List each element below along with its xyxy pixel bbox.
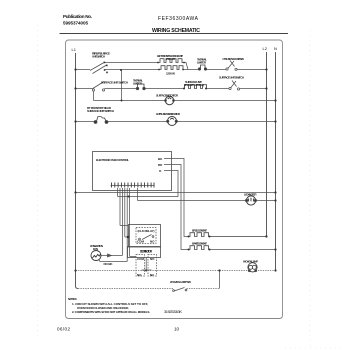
svg-text:NOTES:: NOTES: — [68, 297, 77, 301]
svg-text:COM: COM — [137, 240, 145, 244]
svg-text:HOT SURFACE INDICATOR: HOT SURFACE INDICATOR — [156, 112, 181, 116]
svg-text:5995374005: 5995374005 — [63, 21, 88, 26]
svg-text:O: O — [159, 169, 162, 173]
svg-text:NO BK: NO BK — [104, 262, 114, 266]
svg-text:NO: NO — [150, 240, 155, 244]
svg-text:UNIT SWITCH: UNIT SWITCH — [92, 55, 105, 59]
svg-text:10: 10 — [174, 327, 180, 332]
svg-text:L2: L2 — [263, 46, 268, 51]
svg-text:LOCK MOTOR: LOCK MOTOR — [244, 193, 257, 197]
svg-text:319Z533/3K: 319Z533/3K — [164, 309, 182, 314]
svg-text:SURFACE UNIT SWITCH: SURFACE UNIT SWITCH — [87, 109, 114, 113]
svg-text:WIRING SCHEMATIC: WIRING SCHEMATIC — [152, 28, 200, 34]
svg-text:COM: COM — [137, 257, 145, 261]
svg-text:2100 W: 2100 W — [166, 57, 175, 61]
svg-text:ELECTRONIC OVEN CONTROL: ELECTRONIC OVEN CONTROL — [96, 158, 129, 162]
svg-text:SURFACE UNIT SWITCH: SURFACE UNIT SWITCH — [101, 81, 128, 85]
svg-text:LT SURFACE UNIT SW: LT SURFACE UNIT SW — [223, 57, 245, 61]
svg-text:FEF36300AWA: FEF36300AWA — [158, 16, 199, 22]
svg-text:SURFACE INDICATOR: SURFACE INDICATOR — [156, 94, 179, 98]
svg-text:BK: BK — [158, 157, 163, 161]
svg-text:NO: NO — [150, 257, 155, 261]
svg-text:DOOR MOTOR: DOOR MOTOR — [140, 250, 153, 254]
svg-text:FAN: FAN — [93, 247, 98, 251]
svg-text:W OVEN LAMP: W OVEN LAMP — [243, 260, 258, 264]
svg-text:(2100W 1250W): (2100W 1250W) — [184, 83, 204, 87]
svg-text:06/02: 06/02 — [57, 327, 70, 332]
svg-text:1250 W: 1250 W — [166, 72, 175, 76]
svg-text:RD: RD — [158, 163, 163, 167]
svg-text:LIMITER: LIMITER — [197, 61, 207, 65]
svg-text:Publication No.: Publication No. — [63, 14, 92, 19]
svg-text:N: N — [274, 46, 277, 51]
svg-text:NO: NO — [137, 273, 142, 277]
svg-text:L1: L1 — [72, 47, 77, 52]
svg-text:BAKE ELEMENT: BAKE ELEMENT — [192, 242, 207, 246]
svg-text:SURFACE UNIT SWITCH: SURFACE UNIT SWITCH — [219, 76, 244, 80]
svg-text:W OVEN LAMP SW: W OVEN LAMP SW — [170, 280, 191, 284]
svg-text:NC: NC — [150, 273, 155, 277]
svg-text:2. COMPONENTS WITH W DO NOT: 2. COMPONENTS WITH W DO NOT APPEAR ON AL… — [72, 310, 150, 314]
svg-text:BROIL ELEMENT: BROIL ELEMENT — [192, 229, 207, 233]
svg-text:LIMITER: LIMITER — [133, 82, 143, 86]
svg-text:(CLK RELAY): (CLK RELAY) — [138, 229, 155, 233]
